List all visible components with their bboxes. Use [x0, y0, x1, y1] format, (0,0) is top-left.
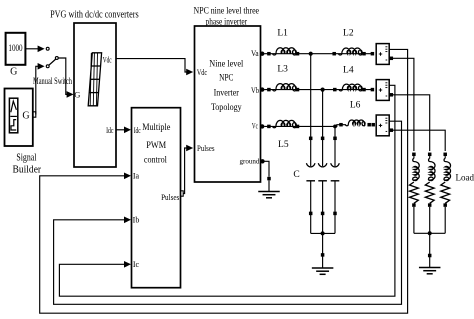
inductor L3	[273, 84, 297, 91]
load bottom bus	[414, 232, 445, 234]
capacitor Cc port square	[333, 137, 337, 141]
input port square of measurement block 2	[371, 88, 375, 92]
svg-text:phase inverter: phase inverter	[206, 17, 248, 27]
wire Pulses from PWM to NPC inverter	[183, 148, 189, 194]
load branch 1 bottom port square	[412, 203, 416, 207]
wire capacitor Ca to bus	[310, 181, 312, 234]
load branch 1 top port square	[412, 153, 416, 157]
signal builder block	[5, 89, 33, 147]
wire Vdc from PVG to NPC inverter	[116, 59, 189, 72]
load branch 2 bottom port square	[428, 203, 432, 207]
input port square of measurement block 3	[371, 123, 375, 127]
ground (capacitor bank)	[312, 267, 334, 269]
node capacitor bus junction	[321, 231, 325, 235]
manual switch SW1 contacts	[46, 47, 49, 50]
svg-text:Vdc: Vdc	[103, 54, 112, 64]
load branch 2 inductor	[429, 156, 431, 158]
svg-text:L6: L6	[350, 101, 361, 111]
svg-text:Idc: Idc	[134, 126, 141, 135]
load branch 3 top port square	[443, 153, 447, 157]
ground (NPC inverter)	[258, 191, 280, 193]
port square after L2	[362, 52, 366, 56]
svg-text:Topology: Topology	[211, 103, 242, 113]
load branch 2 resistor	[425, 182, 434, 203]
current measurement block U2 (phase B)	[376, 80, 389, 101]
svg-text:L2: L2	[343, 28, 354, 38]
svg-text:G: G	[22, 111, 29, 122]
svg-text:Load: Load	[456, 173, 474, 183]
svg-text:Vc: Vc	[252, 122, 258, 131]
wire capacitor Cc to bus	[334, 181, 336, 234]
load branch 2 top port square	[428, 153, 432, 157]
manual switch lever	[49, 59, 56, 65]
svg-text:NPC nine level three: NPC nine level three	[194, 6, 260, 16]
block NPC nine level inverter	[195, 26, 261, 182]
svg-text:Vb: Vb	[251, 86, 259, 95]
capacitor Cb port square	[321, 137, 325, 141]
wire load bus to ground	[429, 233, 431, 267]
wire phase C from Vc	[264, 125, 335, 127]
capacitor Ca	[306, 163, 315, 167]
block Multiple PWM control	[132, 108, 181, 288]
current measurement block U1 (phase A)	[376, 44, 389, 65]
PWM pulses output port notch	[181, 191, 184, 196]
port square before L3	[267, 88, 271, 92]
port square after L4	[362, 88, 366, 92]
current measurement block U3 (phase C)	[376, 115, 389, 136]
svg-text:NPC: NPC	[219, 74, 233, 84]
svg-text:1000: 1000	[8, 44, 22, 54]
ground (load)	[419, 267, 441, 269]
port square after L5	[296, 125, 300, 128]
node Vb output port	[260, 87, 264, 91]
wire load branch 2 to bus	[429, 207, 431, 233]
svg-text:ground: ground	[240, 157, 260, 166]
svg-text:Pulses: Pulses	[197, 143, 215, 153]
svg-text:Multiple: Multiple	[142, 123, 170, 133]
svg-text:PVG with dc/dc converters: PVG with dc/dc converters	[50, 10, 139, 21]
wire load branch 1 to bus	[413, 207, 415, 233]
inductor L2	[339, 48, 362, 55]
svg-text:G: G	[10, 67, 17, 78]
load branch 1 resistor	[410, 182, 419, 203]
port square before L5	[267, 125, 271, 128]
wire phase A to L2	[311, 53, 372, 55]
svg-text:C: C	[293, 170, 299, 180]
svg-text:Inverter: Inverter	[214, 89, 240, 99]
port square before L4	[333, 88, 337, 92]
input port square of measurement block 1	[371, 52, 375, 56]
node junction phase A to capacitor branch 1	[309, 52, 313, 56]
load branch 3 resistor	[441, 182, 450, 203]
svg-text:Signal: Signal	[16, 152, 36, 164]
wire U1 to load branch 1	[393, 58, 414, 151]
node Vc output port	[260, 124, 264, 128]
node ground output port	[260, 159, 264, 163]
node Va output port	[260, 52, 264, 56]
svg-text:Vdc: Vdc	[197, 67, 207, 77]
capacitor bank bottom bus	[311, 232, 335, 234]
load branch 1 inductor	[413, 156, 415, 158]
wire phase to capacitor Ca	[310, 54, 312, 167]
node junction phase B to capacitor branch 2	[321, 88, 325, 92]
svg-text:L1: L1	[277, 29, 288, 39]
port square after L1	[296, 52, 300, 56]
svg-text:G: G	[74, 90, 80, 100]
port square before L1	[267, 52, 271, 56]
wire capacitor bus to ground	[322, 233, 324, 267]
signal builder output port notch	[33, 112, 36, 117]
wire ground output to ground symbol	[264, 161, 269, 177]
signal builder waveform icon	[11, 101, 17, 112]
wire Idc from PVG to PWM control	[116, 129, 127, 131]
constant block 1000 (irradiance G)	[6, 33, 26, 65]
wire U2 to load branch 2	[393, 95, 430, 151]
svg-text:Ia: Ia	[133, 171, 140, 180]
node junction phase C to capacitor branch 3	[333, 125, 337, 129]
svg-text:Ib: Ib	[133, 216, 140, 225]
wire feedback Ib from U3 to PWM	[54, 121, 402, 304]
svg-text:Ic: Ic	[133, 260, 140, 269]
svg-text:L4: L4	[343, 65, 354, 75]
port square before L2	[332, 52, 336, 56]
capacitor Ca port square	[309, 137, 313, 141]
node load bus junction	[428, 231, 432, 235]
port square before L6	[339, 123, 343, 127]
solar panel icon	[88, 53, 101, 106]
block PVG with dc/dc converters	[74, 23, 116, 167]
svg-text:Pulses: Pulses	[161, 192, 179, 202]
load branch 3 bottom port square	[443, 203, 447, 207]
wire feedback Ia from U1 to PWM	[40, 49, 408, 313]
svg-text:Manual Switch: Manual Switch	[33, 76, 72, 86]
wire load branch 3 to bus	[444, 207, 446, 233]
svg-text:Va: Va	[251, 49, 259, 58]
wire constant to manual switch	[26, 48, 41, 50]
load branch 3 inductor	[444, 156, 446, 158]
wire manual switch to PVG G input	[58, 58, 69, 94]
wire phase to capacitor Cc	[334, 126, 336, 166]
svg-text:PWM: PWM	[146, 141, 166, 151]
inductor L6	[346, 120, 365, 126]
svg-text:control: control	[144, 156, 167, 166]
svg-text:Nine level: Nine level	[209, 60, 243, 70]
inductor L5	[273, 120, 297, 127]
wire feedback Ic from U2 to PWM	[59, 85, 395, 296]
wire signal builder to manual switch	[36, 66, 41, 114]
wire phase C jog up to L6 row	[335, 125, 346, 127]
wire phase to capacitor Cb	[322, 90, 324, 167]
wire phase A from Va	[264, 53, 311, 55]
inductor L4	[339, 84, 362, 91]
svg-text:Builder: Builder	[13, 164, 42, 176]
wire phase B from Vb	[264, 89, 372, 91]
wire capacitor Cb to bus	[322, 181, 324, 234]
svg-text:Idc: Idc	[106, 125, 114, 135]
svg-text:L5: L5	[278, 140, 289, 150]
inductor L1	[273, 48, 297, 55]
output port square of U3	[390, 128, 394, 132]
port square after L6	[367, 123, 371, 127]
capacitor Cb	[318, 163, 327, 167]
output port square of U2	[390, 93, 394, 97]
port square after L3	[296, 88, 300, 92]
svg-text:L3: L3	[277, 65, 288, 75]
output port square of U1	[390, 57, 394, 61]
wire U3 to load branch 3	[393, 130, 445, 151]
capacitor Cc	[331, 163, 340, 167]
